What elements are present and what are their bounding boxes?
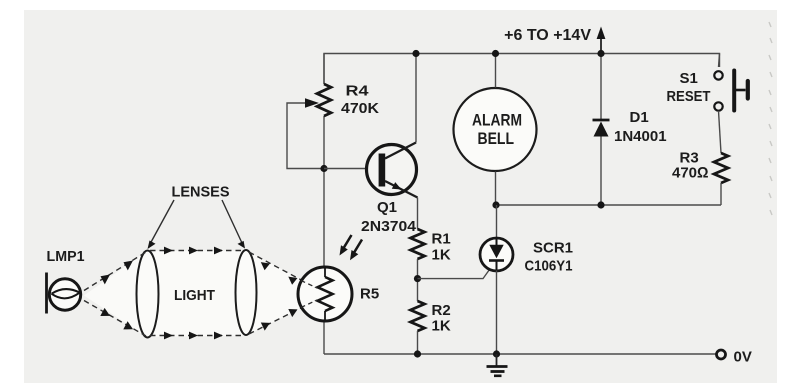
light beam bright region [84, 251, 310, 338]
svg-text:0V: 0V [734, 349, 752, 366]
supply arrow [597, 27, 606, 54]
wire bell bottom to anode node [495, 172, 497, 206]
wire Q1 collector to rail [415, 54, 417, 143]
svg-text:R2: R2 [432, 302, 451, 319]
R5 light arrows [340, 235, 363, 260]
lens 2 [236, 250, 257, 335]
light ray lower diverging [84, 301, 146, 337]
node cathode/0V junction [493, 350, 500, 357]
wire S1 bottom to R3 [719, 111, 722, 153]
label LMP1 [47, 248, 85, 265]
label LIGHT [174, 287, 215, 304]
label R5 [360, 286, 379, 303]
alarm bell BL1 [454, 88, 537, 171]
svg-text:470Ω: 470Ω [672, 165, 709, 182]
label R4 [341, 83, 379, 118]
node D1 anode junction [597, 201, 604, 208]
svg-text:ALARM: ALARM [472, 111, 522, 130]
light ray bottom middle [150, 332, 243, 340]
wire left vertical (R4/R5 branch) [323, 54, 325, 355]
svg-text:Q1: Q1 [377, 199, 397, 216]
node bell/top-rail junction [492, 50, 499, 57]
svg-text:C106Y1: C106Y1 [525, 258, 573, 275]
svg-text:D1: D1 [630, 109, 649, 126]
label S1 RESET [667, 70, 711, 105]
node bell/SCR anode junction [492, 201, 499, 208]
label SCR1 [525, 240, 574, 275]
label Q1 [361, 199, 417, 235]
resistor R4 [317, 84, 331, 116]
wire R1 bottom to gate node [417, 259, 419, 301]
svg-text:2N3704: 2N3704 [361, 218, 417, 235]
svg-text:470K: 470K [341, 100, 379, 117]
label +6 TO +14V [504, 27, 591, 44]
light ray upper converging [249, 252, 305, 282]
wire rail to S1 top contact [719, 54, 720, 68]
ground [487, 354, 508, 376]
label D1 [614, 109, 667, 145]
svg-text:RESET: RESET [667, 88, 711, 105]
resistor R1 [411, 229, 425, 259]
transistor Q1 [367, 143, 418, 198]
wire Q1 emitter to R1 [417, 198, 419, 230]
resistor R2 [411, 301, 425, 331]
lens pointer lines [148, 200, 246, 249]
light rays inside R5 [288, 277, 317, 318]
diode D1 [593, 120, 610, 137]
svg-text:LMP1: LMP1 [47, 248, 85, 265]
node R2/0V junction [414, 350, 421, 357]
svg-text:1K: 1K [432, 318, 451, 335]
svg-text:R1: R1 [432, 231, 451, 248]
lens 1 [137, 251, 159, 338]
resistor R3 [714, 153, 728, 183]
page edge marks [769, 22, 772, 215]
svg-text:R4: R4 [346, 83, 370, 100]
svg-text:SCR1: SCR1 [533, 240, 573, 257]
lamp LMP1 [47, 273, 81, 314]
wire SCR1 gate [418, 270, 490, 279]
node collector/top-rail junction [412, 50, 419, 57]
label R2 [432, 302, 451, 335]
wire anode node horizontal [496, 204, 722, 206]
node base junction (R4/R5/Q1 base) [320, 165, 327, 172]
light ray lower converging [249, 306, 305, 334]
svg-text:1K: 1K [432, 247, 451, 264]
label R1 [432, 231, 451, 264]
svg-text:BELL: BELL [478, 129, 515, 148]
wire bottom 0V rail [324, 353, 717, 355]
label LENSES [172, 184, 230, 201]
node gate junction (R1/R2/SCR gate) [414, 275, 421, 282]
label R3 [672, 150, 709, 182]
terminal 0V [717, 349, 752, 366]
wire bell top to rail [495, 54, 497, 88]
wire SCR anode [496, 205, 498, 238]
svg-text:LENSES: LENSES [172, 184, 230, 201]
node D1/top-rail junction [597, 50, 604, 57]
svg-text:1N4001: 1N4001 [614, 128, 667, 145]
svg-text:+6 TO +14V: +6 TO +14V [504, 27, 591, 44]
switch S1 (push-to-break) [714, 71, 748, 111]
wire top supply rail [324, 54, 720, 85]
R4 wiper arrow (rheostat) [287, 98, 324, 168]
photoresistor R5 [298, 267, 352, 321]
wire Q1 base [324, 168, 379, 170]
light ray upper diverging [84, 252, 146, 291]
svg-text:LIGHT: LIGHT [174, 287, 215, 304]
wire R2 bottom to 0V rail [417, 331, 419, 354]
thyristor SCR1 [480, 238, 513, 271]
svg-text:S1: S1 [680, 70, 698, 87]
wire R3 bottom to anode node [720, 183, 722, 205]
wire SCR cathode to 0V [496, 271, 498, 355]
svg-text:R5: R5 [360, 286, 379, 303]
light ray top middle [150, 247, 243, 255]
diode D1 wires [600, 54, 602, 206]
